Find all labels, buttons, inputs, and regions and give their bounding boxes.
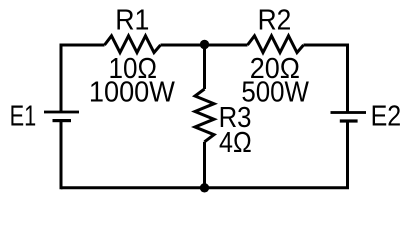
wire left lower (from E1 negative plate) <box>60 121 63 190</box>
wire bottom segment <box>61 186 349 189</box>
battery E1 negative plate <box>53 119 72 122</box>
wire middle lower (R3 to node B) <box>203 142 206 188</box>
wire middle upper (node A to R3) <box>203 45 206 90</box>
wire top-left segment <box>61 44 105 47</box>
resistor R3 <box>195 89 214 142</box>
node B (bottom junction dot) <box>200 183 209 192</box>
wire top-middle segment <box>161 44 248 47</box>
svg-text:500W: 500W <box>241 76 309 108</box>
svg-text:E2: E2 <box>371 100 402 132</box>
svg-text:R1: R1 <box>115 4 149 36</box>
resistor R2 <box>248 36 304 53</box>
svg-text:E1: E1 <box>10 100 37 132</box>
svg-text:4Ω: 4Ω <box>219 127 252 159</box>
battery E2 negative plate <box>340 119 358 122</box>
wire top-right segment <box>304 44 348 47</box>
battery E2 positive plate <box>331 111 367 114</box>
wire right upper (to E2 positive plate) <box>346 44 349 113</box>
svg-text:1000W: 1000W <box>89 76 176 108</box>
battery E1 positive plate <box>44 111 79 114</box>
resistor R1 <box>105 36 161 53</box>
wire right lower (from E2 negative plate) <box>346 121 349 188</box>
wire left upper (to E1 positive plate) <box>60 44 63 113</box>
svg-text:R2: R2 <box>258 4 292 36</box>
node A (top junction dot) <box>200 40 209 49</box>
